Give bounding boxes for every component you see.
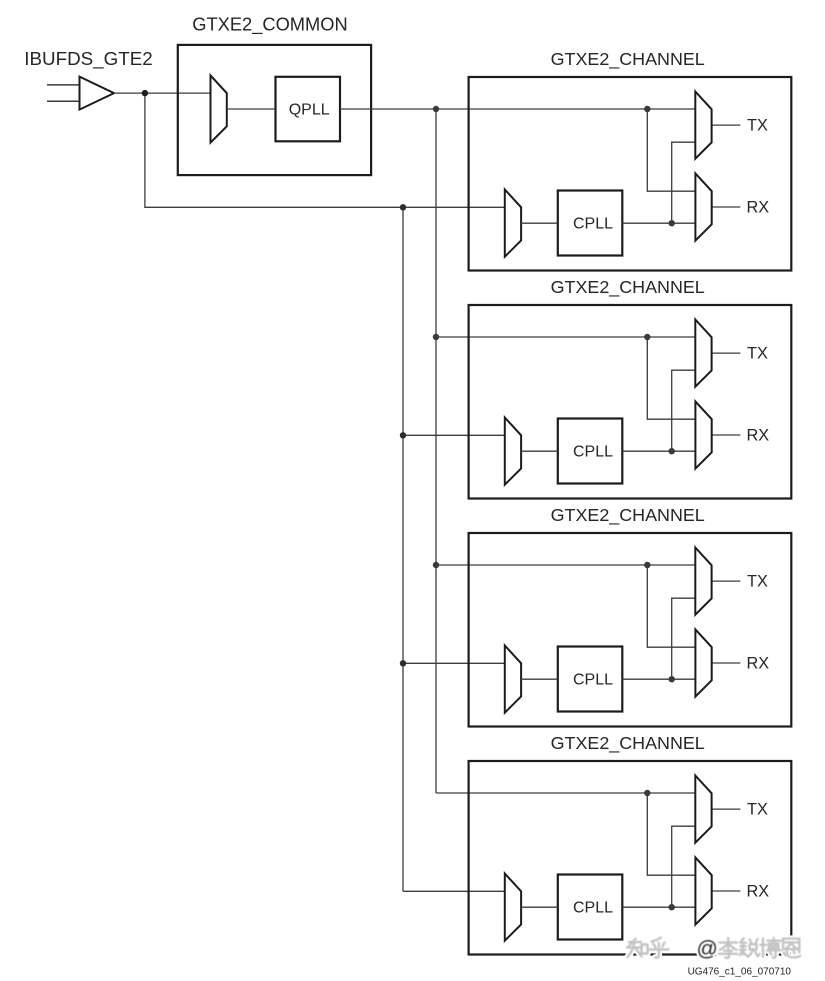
svg-text:@: @	[697, 938, 718, 961]
svg-text:QPLL: QPLL	[289, 101, 330, 118]
svg-text:UG476_c1_06_070710: UG476_c1_06_070710	[688, 967, 792, 978]
svg-text:IBUFDS_GTE2: IBUFDS_GTE2	[24, 48, 152, 70]
svg-text:GTXE2_COMMON: GTXE2_COMMON	[192, 13, 347, 35]
